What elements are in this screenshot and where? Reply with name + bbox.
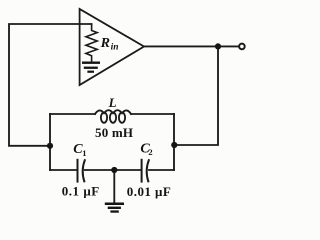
svg-text:1: 1 (82, 148, 86, 158)
svg-text:50 mH: 50 mH (95, 125, 133, 140)
svg-text:0.1 μF: 0.1 μF (62, 184, 100, 199)
svg-text:0.01 μF: 0.01 μF (127, 184, 171, 199)
svg-text:2: 2 (148, 147, 152, 157)
svg-text:in: in (111, 43, 119, 53)
svg-text:R: R (100, 36, 110, 51)
svg-text:L: L (108, 95, 117, 110)
